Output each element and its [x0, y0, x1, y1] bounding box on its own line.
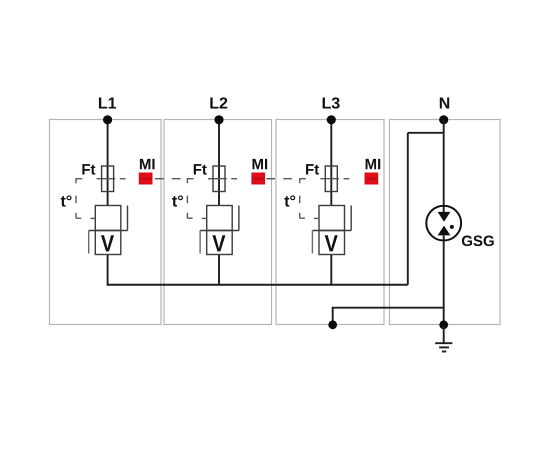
- thermal dashed line module 3: [300, 178, 306, 180]
- wire common varistor bus: [107, 284, 408, 286]
- enclosure box module 4: [390, 120, 501, 325]
- indicator MI module 3: [365, 173, 379, 185]
- node L3: [327, 115, 336, 124]
- label Ft module 1: [82, 164, 95, 174]
- GSG upper triangle: [438, 212, 451, 222]
- varistor right offset module 3: [350, 206, 352, 231]
- fuse Ft module 2: [213, 166, 225, 192]
- wire L1 varistor to bus: [107, 255, 109, 286]
- thermal bracket module 3: [299, 178, 301, 183]
- thermal dashed line module 1: [76, 178, 82, 180]
- label L1: [99, 97, 116, 108]
- thermal dashed line module 2: [187, 178, 193, 180]
- wire L1 vertical: [107, 120, 109, 206]
- wire GSG to PE: [443, 235, 445, 324]
- label V module 1: [101, 235, 114, 251]
- label L3: [323, 97, 340, 108]
- wire branch to N: [408, 132, 444, 134]
- varistor disconnector square module 1: [95, 206, 121, 231]
- spark gap GSG circle: [426, 206, 461, 241]
- label Ft module 3: [306, 164, 319, 174]
- varistor offset line bottom module 3: [312, 230, 351, 232]
- wire PE bus: [333, 308, 444, 325]
- enclosure box module 3: [276, 120, 384, 325]
- label MI module 3: [366, 159, 381, 169]
- fuse Ft module 3: [325, 166, 337, 192]
- node N: [439, 115, 448, 124]
- label Ft module 2: [194, 164, 207, 174]
- varistor left offset module 3: [311, 231, 313, 254]
- varistor right offset module 1: [127, 206, 129, 231]
- enclosure box module 1: [50, 120, 162, 325]
- label t° module 2: [172, 195, 183, 206]
- enclosure box module 2: [164, 120, 272, 325]
- varistor offset line bottom module 1: [89, 230, 128, 232]
- node PE terminal: [328, 320, 337, 329]
- varistor left offset module 2: [199, 231, 201, 254]
- node ground terminal: [439, 320, 448, 329]
- varistor V square module 3: [319, 231, 345, 255]
- label V module 2: [212, 235, 225, 251]
- wire L3 vertical: [330, 120, 332, 206]
- wire riser to N branch: [407, 133, 409, 285]
- varistor V square module 1: [95, 231, 121, 255]
- ground bar 2: [439, 346, 449, 348]
- ground bar 3: [442, 351, 446, 353]
- GSG dot mark: [450, 225, 454, 229]
- label L2: [210, 97, 227, 108]
- varistor disconnector square module 3: [319, 206, 345, 231]
- thermal bracket module 2: [186, 178, 188, 183]
- wire L2 vertical: [218, 120, 220, 206]
- wire L3 varistor to bus: [330, 255, 332, 286]
- label t° module 3: [284, 195, 295, 206]
- node L2: [214, 115, 223, 124]
- fuse Ft module 1: [102, 166, 114, 192]
- label GSG: [462, 236, 494, 247]
- label V module 3: [325, 235, 338, 251]
- label N: [440, 97, 449, 108]
- varistor disconnector square module 2: [207, 206, 233, 231]
- wire N to GSG: [443, 120, 445, 212]
- ground bar 1: [435, 342, 452, 344]
- label MI module 1: [140, 159, 155, 169]
- wire L2 varistor to bus: [218, 255, 220, 286]
- indicator MI module 1: [139, 173, 153, 185]
- label MI module 2: [253, 159, 268, 169]
- node L1: [103, 115, 112, 124]
- indicator MI module 2: [251, 173, 265, 185]
- varistor left offset module 1: [88, 231, 90, 254]
- varistor right offset module 2: [238, 206, 240, 231]
- varistor offset line bottom module 2: [200, 230, 239, 232]
- ground stem: [443, 325, 445, 343]
- thermal bracket module 1: [75, 178, 77, 183]
- varistor V square module 2: [207, 231, 233, 255]
- GSG lower triangle: [438, 226, 451, 236]
- label t° module 1: [61, 195, 72, 206]
